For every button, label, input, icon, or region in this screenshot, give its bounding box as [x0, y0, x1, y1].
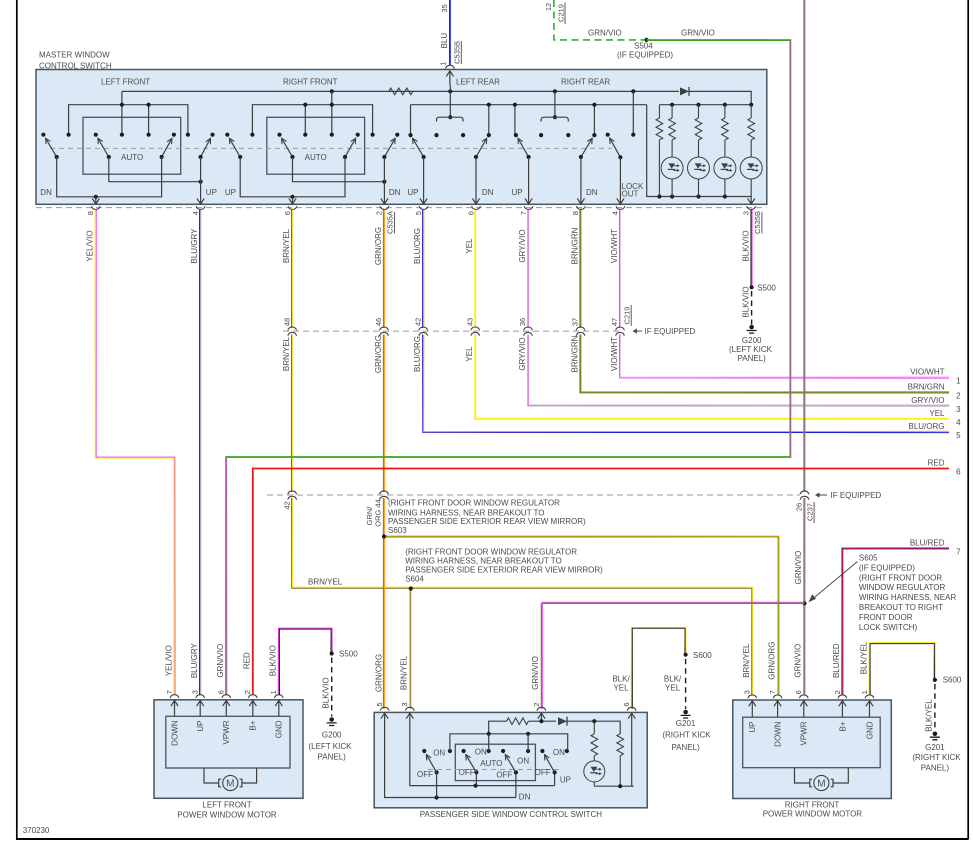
svg-text:C535B: C535B: [753, 211, 762, 234]
svg-text:YEL: YEL: [613, 684, 629, 693]
svg-text:48: 48: [282, 318, 291, 326]
svg-text:M: M: [226, 779, 234, 790]
svg-text:7: 7: [165, 690, 174, 694]
svg-text:ON: ON: [517, 757, 529, 766]
svg-text:1: 1: [269, 690, 278, 694]
svg-text:DN: DN: [519, 792, 531, 801]
svg-text:26: 26: [795, 503, 804, 511]
svg-text:36: 36: [518, 318, 527, 326]
svg-text:GRN/VIO: GRN/VIO: [794, 551, 803, 585]
svg-text:2: 2: [375, 211, 384, 215]
svg-text:VPWR: VPWR: [222, 720, 231, 744]
svg-text:PASSENGER SIDE EXTERIOR REAR V: PASSENGER SIDE EXTERIOR REAR VIEW MIRROR…: [388, 517, 586, 526]
svg-text:2: 2: [956, 392, 961, 401]
svg-text:(LEFT KICK: (LEFT KICK: [309, 742, 353, 751]
svg-text:M: M: [817, 779, 825, 790]
svg-text:PASSENGER SIDE WINDOW CONTROL: PASSENGER SIDE WINDOW CONTROL SWITCH: [420, 810, 602, 819]
svg-text:FRONT DOOR: FRONT DOOR: [859, 613, 913, 622]
svg-text:(IF EQUIPPED): (IF EQUIPPED): [859, 563, 915, 572]
svg-text:VPWR: VPWR: [800, 721, 809, 745]
svg-text:370230: 370230: [23, 826, 50, 835]
svg-text:PANEL): PANEL): [921, 764, 950, 773]
svg-text:3: 3: [191, 690, 200, 694]
svg-text:CONTROL SWITCH: CONTROL SWITCH: [39, 62, 112, 71]
svg-text:6: 6: [794, 690, 803, 694]
svg-text:C237: C237: [805, 503, 814, 521]
svg-text:WIRING HARNESS, NEAR BREAKOUT: WIRING HARNESS, NEAR BREAKOUT TO: [405, 557, 561, 566]
svg-text:GRY/VIO: GRY/VIO: [518, 229, 527, 262]
svg-text:UP: UP: [748, 722, 757, 733]
svg-text:42: 42: [413, 318, 422, 326]
svg-text:MASTER WINDOW: MASTER WINDOW: [39, 51, 110, 60]
svg-text:BREAKOUT TO RIGHT: BREAKOUT TO RIGHT: [859, 603, 943, 612]
svg-text:(IF EQUIPPED): (IF EQUIPPED): [617, 51, 673, 60]
svg-text:37: 37: [571, 318, 580, 326]
svg-text:6: 6: [466, 211, 475, 215]
svg-text:42: 42: [282, 501, 291, 509]
svg-text:PASSENGER SIDE EXTERIOR REAR V: PASSENGER SIDE EXTERIOR REAR VIEW MIRROR…: [405, 565, 603, 574]
svg-text:AUTO: AUTO: [121, 153, 143, 162]
svg-text:7: 7: [519, 211, 528, 215]
svg-text:GND: GND: [275, 720, 284, 738]
svg-text:S500: S500: [757, 284, 776, 293]
svg-text:VIO/WHT: VIO/WHT: [610, 337, 619, 371]
svg-text:WIRING HARNESS, NEAR BREAKOUT: WIRING HARNESS, NEAR BREAKOUT TO: [388, 508, 544, 517]
svg-text:GRY/VIO: GRY/VIO: [911, 396, 944, 405]
svg-text:GRN/VIO: GRN/VIO: [681, 29, 715, 38]
svg-text:5: 5: [956, 431, 961, 440]
svg-text:POWER WINDOW MOTOR: POWER WINDOW MOTOR: [177, 811, 277, 820]
svg-text:PANEL): PANEL): [671, 743, 700, 752]
svg-text:G200: G200: [322, 731, 342, 740]
svg-text:S605: S605: [859, 553, 878, 562]
svg-text:RED: RED: [928, 459, 945, 468]
svg-text:LOCK SWITCH): LOCK SWITCH): [859, 623, 918, 632]
svg-text:3: 3: [400, 703, 409, 707]
svg-text:2: 2: [532, 703, 541, 707]
svg-text:47: 47: [610, 318, 619, 326]
svg-text:G200: G200: [742, 336, 762, 345]
svg-text:AUTO: AUTO: [480, 759, 502, 768]
svg-text:8: 8: [571, 211, 580, 215]
svg-text:BLK/YEL: BLK/YEL: [859, 641, 868, 674]
svg-text:ORG 44: ORG 44: [374, 499, 383, 527]
svg-text:PANEL): PANEL): [738, 354, 767, 363]
svg-text:BLU/RED: BLU/RED: [910, 539, 945, 548]
svg-text:OFF: OFF: [535, 768, 551, 777]
svg-text:LEFT REAR: LEFT REAR: [456, 78, 500, 87]
svg-text:IF EQUIPPED: IF EQUIPPED: [831, 491, 882, 500]
svg-text:BRN/GRN: BRN/GRN: [908, 383, 945, 392]
svg-text:BLU/ORG: BLU/ORG: [413, 228, 422, 264]
svg-text:GRY/VIO: GRY/VIO: [518, 337, 527, 370]
svg-text:LEFT FRONT: LEFT FRONT: [101, 78, 150, 87]
svg-text:GRN/VIO: GRN/VIO: [794, 644, 803, 678]
svg-text:(LEFT KICK: (LEFT KICK: [729, 345, 773, 354]
svg-text:GND: GND: [865, 721, 874, 739]
svg-text:(RIGHT FRONT DOOR WINDOW REGUL: (RIGHT FRONT DOOR WINDOW REGULATOR: [388, 498, 560, 507]
svg-text:S604: S604: [405, 574, 424, 583]
svg-text:BRN/YEL: BRN/YEL: [400, 655, 409, 690]
svg-text:VIO/WHT: VIO/WHT: [610, 229, 619, 263]
svg-text:BRN/YEL: BRN/YEL: [282, 336, 291, 371]
svg-text:12: 12: [544, 3, 553, 11]
svg-text:46: 46: [374, 318, 383, 326]
svg-text:UP: UP: [512, 188, 523, 197]
svg-text:DN: DN: [389, 188, 401, 197]
svg-text:1: 1: [438, 62, 447, 66]
svg-text:5: 5: [375, 703, 384, 707]
svg-text:S504: S504: [634, 42, 653, 51]
svg-text:C535B: C535B: [453, 41, 462, 64]
svg-text:WIRING HARNESS, NEAR: WIRING HARNESS, NEAR: [859, 593, 957, 602]
svg-text:8: 8: [86, 211, 95, 215]
svg-text:BLU/ORG: BLU/ORG: [413, 336, 422, 372]
svg-text:BLU/GRY: BLU/GRY: [190, 643, 199, 679]
svg-text:G201: G201: [676, 719, 696, 728]
svg-text:YEL/VIO: YEL/VIO: [86, 230, 95, 261]
svg-text:YEL: YEL: [465, 346, 474, 362]
svg-text:GRN/ORG: GRN/ORG: [374, 227, 383, 265]
svg-text:BRN/YEL: BRN/YEL: [282, 228, 291, 263]
svg-text:7: 7: [956, 548, 961, 557]
svg-text:ON: ON: [433, 749, 445, 758]
svg-text:BLK/: BLK/: [664, 675, 682, 684]
svg-text:OUT: OUT: [622, 190, 639, 199]
svg-text:GRN/VIO: GRN/VIO: [588, 29, 622, 38]
svg-text:ON: ON: [553, 748, 565, 757]
svg-text:GRN/ORG: GRN/ORG: [374, 654, 383, 692]
svg-text:GRN/ORG: GRN/ORG: [374, 335, 383, 373]
svg-text:S603: S603: [388, 526, 407, 535]
svg-text:1: 1: [956, 377, 961, 386]
svg-text:C219: C219: [623, 307, 632, 325]
svg-text:BRN/GRN: BRN/GRN: [570, 227, 579, 264]
svg-text:B+: B+: [838, 721, 847, 731]
svg-text:(RIGHT KICK: (RIGHT KICK: [662, 731, 711, 740]
svg-text:GRN/: GRN/: [365, 506, 374, 526]
svg-text:3: 3: [956, 405, 961, 414]
svg-text:S600: S600: [943, 676, 962, 685]
svg-text:UP: UP: [196, 721, 205, 732]
svg-text:43: 43: [465, 318, 474, 326]
svg-text:6: 6: [217, 690, 226, 694]
svg-text:BLU/RED: BLU/RED: [832, 643, 841, 678]
svg-text:BLK/VIO: BLK/VIO: [741, 230, 750, 261]
svg-text:GRN/VIO: GRN/VIO: [531, 656, 540, 690]
svg-text:LEFT FRONT: LEFT FRONT: [202, 801, 251, 810]
svg-text:PANEL): PANEL): [318, 752, 347, 761]
svg-text:2: 2: [833, 690, 842, 694]
svg-text:YEL: YEL: [465, 238, 474, 254]
svg-text:UP: UP: [407, 188, 418, 197]
svg-text:1: 1: [860, 690, 869, 694]
svg-text:4: 4: [611, 211, 620, 215]
svg-text:BLK/YEL: BLK/YEL: [925, 699, 934, 732]
svg-text:BRN/YEL: BRN/YEL: [308, 578, 343, 587]
svg-text:OFF: OFF: [459, 768, 475, 777]
svg-text:6: 6: [956, 468, 961, 477]
svg-text:6: 6: [283, 211, 292, 215]
svg-text:UP: UP: [206, 188, 217, 197]
svg-text:BLK/VIO: BLK/VIO: [269, 645, 278, 676]
svg-text:OFF: OFF: [417, 770, 433, 779]
svg-text:(RIGHT FRONT DOOR: (RIGHT FRONT DOOR: [859, 573, 942, 582]
svg-text:AUTO: AUTO: [305, 153, 327, 162]
svg-text:BLU/GRY: BLU/GRY: [190, 228, 199, 264]
svg-text:(RIGHT KICK: (RIGHT KICK: [912, 753, 961, 762]
svg-text:(RIGHT FRONT DOOR WINDOW REGUL: (RIGHT FRONT DOOR WINDOW REGULATOR: [405, 548, 577, 557]
svg-text:DOWN: DOWN: [170, 720, 179, 746]
svg-text:B+: B+: [249, 720, 258, 730]
svg-text:UP: UP: [560, 776, 571, 785]
svg-text:BLK/VIO: BLK/VIO: [322, 677, 331, 708]
svg-text:6: 6: [622, 703, 631, 707]
svg-text:VIO/WHT: VIO/WHT: [910, 368, 944, 377]
svg-text:OFF: OFF: [496, 771, 512, 780]
svg-text:BLK/: BLK/: [612, 675, 630, 684]
svg-text:S500: S500: [339, 650, 358, 659]
svg-text:2: 2: [243, 690, 252, 694]
svg-text:3: 3: [743, 690, 752, 694]
svg-text:S600: S600: [693, 651, 712, 660]
svg-text:C535A: C535A: [386, 211, 395, 234]
svg-text:YEL: YEL: [929, 409, 945, 418]
svg-text:RIGHT FRONT: RIGHT FRONT: [785, 801, 840, 810]
svg-text:BLU/ORG: BLU/ORG: [908, 422, 944, 431]
svg-text:BRN/YEL: BRN/YEL: [742, 643, 751, 678]
svg-text:5: 5: [414, 211, 423, 215]
svg-text:3: 3: [742, 211, 751, 215]
svg-text:GRN/VIO: GRN/VIO: [216, 644, 225, 678]
svg-text:YEL/VIO: YEL/VIO: [164, 645, 173, 676]
svg-text:DN: DN: [586, 188, 598, 197]
svg-text:UP: UP: [225, 188, 236, 197]
svg-text:BRN/GRN: BRN/GRN: [570, 335, 579, 372]
svg-text:7: 7: [768, 690, 777, 694]
svg-text:YEL: YEL: [665, 684, 681, 693]
svg-text:DN: DN: [482, 188, 494, 197]
svg-text:ON: ON: [475, 748, 487, 757]
svg-text:GRN/ORG: GRN/ORG: [767, 642, 776, 680]
svg-text:35: 35: [440, 4, 449, 12]
svg-text:C219: C219: [556, 4, 565, 22]
svg-text:4: 4: [191, 211, 200, 215]
svg-text:WINDOW REGULATOR: WINDOW REGULATOR: [859, 583, 946, 592]
svg-text:BLU: BLU: [440, 33, 449, 49]
svg-text:DOWN: DOWN: [774, 721, 783, 747]
svg-text:IF EQUIPPED: IF EQUIPPED: [645, 327, 696, 336]
svg-text:RIGHT FRONT: RIGHT FRONT: [283, 78, 338, 87]
svg-text:POWER WINDOW MOTOR: POWER WINDOW MOTOR: [763, 810, 863, 819]
svg-text:DN: DN: [40, 188, 52, 197]
svg-text:RED: RED: [243, 652, 252, 669]
svg-text:4: 4: [956, 418, 961, 427]
svg-text:G201: G201: [925, 743, 945, 752]
svg-text:BLK/VIO: BLK/VIO: [741, 286, 750, 317]
svg-text:RIGHT REAR: RIGHT REAR: [561, 78, 610, 87]
